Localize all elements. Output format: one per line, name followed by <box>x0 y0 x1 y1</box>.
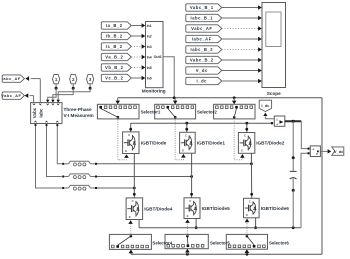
label IGBT/Diode4 <box>144 207 173 212</box>
wire DC- rail <box>139 226 301 229</box>
wire Selector2 out to Q2 gate <box>175 117 185 160</box>
label Selector4 <box>152 240 172 245</box>
svg-text:Va_B_2: Va_B_2 <box>105 55 123 60</box>
label Selector2 <box>197 109 217 114</box>
wire capacitor C1 to DC- rail <box>292 190 294 227</box>
svg-text:Vabc_AF: Vabc_AF <box>191 26 212 31</box>
wire port 1 to V-I block A <box>46 88 56 102</box>
selector block Selector4 <box>109 234 151 249</box>
wire bus drop to Selector3 <box>232 98 237 105</box>
wire Ib_B_2 to Monitoring In2 <box>131 34 145 39</box>
svg-text:Selector5: Selector5 <box>210 240 230 245</box>
wire Selector1 out to Q1 gate <box>118 117 129 160</box>
svg-text:Iabc_B_1: Iabc_B_1 <box>191 16 214 21</box>
label Selector1 <box>141 109 161 114</box>
goto tag Vabc_AF <box>1 92 24 99</box>
svg-text:Selector1: Selector1 <box>141 109 161 114</box>
selector block Selector6 <box>226 234 267 249</box>
transistor Q6 (IGBT/Diode6) <box>244 198 260 218</box>
wire leg3 C stub <box>245 123 248 132</box>
selector block Selector1 <box>97 104 139 119</box>
from tag Ib_B_2 <box>101 32 131 39</box>
wire Ic_B_2 to Monitoring In3 <box>131 44 145 49</box>
transistor Q4 (IGBT/Diode4) <box>126 198 143 220</box>
from tag V_dc <box>186 67 222 74</box>
svg-text:C: C <box>132 199 134 203</box>
svg-text:Vb_B_2: Vb_B_2 <box>105 65 124 70</box>
wire phase line 3 to leg 1 <box>97 187 136 190</box>
from tag Iabc_AF <box>186 35 222 42</box>
wire Va_B_2 to Monitoring In4 <box>131 55 145 60</box>
wire thick DC link <box>285 120 302 123</box>
wire DC+ to capacitor C1 <box>292 121 295 159</box>
svg-text:C: C <box>185 134 187 138</box>
wire port 3 to V-I block C <box>56 88 90 102</box>
svg-text:IGBT/Diode: IGBT/Diode <box>141 141 167 146</box>
port 1 <box>53 74 60 89</box>
label IGBT/Diode6 <box>261 206 290 211</box>
wire Ia_B_2 to Monitoring In1 <box>131 23 145 28</box>
svg-text:Ic_B_2: Ic_B_2 <box>106 44 123 49</box>
wire leg1 C stub <box>129 123 132 132</box>
wire current measurement to I_dc tag <box>263 113 274 119</box>
from tag Vabc_B_2 <box>186 56 222 63</box>
wire to Iabc_AF tag <box>25 76 40 102</box>
svg-text:E: E <box>187 214 189 218</box>
label IGBT/Diode1 <box>197 141 226 146</box>
wire leg2 midpoint <box>190 153 193 198</box>
inductor L3 <box>62 185 97 190</box>
svg-text:Vc_B_2: Vc_B_2 <box>105 76 123 81</box>
svg-text:+: + <box>276 123 278 127</box>
from tag Iabc_B_1 <box>186 14 222 21</box>
inductor L2 <box>62 174 97 179</box>
capacitor C1 <box>290 159 297 192</box>
svg-text:Vabc_AF: Vabc_AF <box>1 93 21 98</box>
svg-text:Iabc_B_2: Iabc_B_2 <box>191 47 214 52</box>
wire bus drop to Selector2 <box>173 98 178 105</box>
svg-text:C: C <box>244 134 246 138</box>
wire Vabc_AF to Scope <box>222 26 262 31</box>
svg-text:E: E <box>129 215 131 219</box>
transistor Q3 (IGBT/Diode2) <box>238 133 254 154</box>
port 2 <box>70 74 77 89</box>
wire Q6 emitter to DC- rail <box>254 218 257 229</box>
wire V_dc to Scope <box>222 68 262 73</box>
wire voltage measurement - to DC- rail <box>301 152 310 227</box>
wire Iabc_AF to Scope <box>222 37 262 42</box>
block Monitoring U-mon <box>146 22 164 88</box>
svg-text:Selector4: Selector4 <box>152 240 172 245</box>
from tag Va_B_2 <box>101 53 131 60</box>
svg-text:E: E <box>246 213 248 217</box>
wire Q5 emitter to DC- rail <box>195 219 198 230</box>
svg-text:IGBT/Diode1: IGBT/Diode1 <box>197 141 226 146</box>
from tag Ia_B_2 <box>101 22 131 29</box>
svg-text:v: v <box>316 152 318 156</box>
from tag Ic_B_2 <box>101 43 131 50</box>
wire phase line 1 to leg 3 <box>97 162 253 165</box>
svg-text:V-I Measurem: V-I Measurem <box>64 113 94 118</box>
svg-text:Scope: Scope <box>267 91 281 96</box>
wire Selector5 out to Q5 gate <box>185 219 190 236</box>
block Scope <box>262 3 286 88</box>
label IGBT/Diode2 <box>256 141 285 146</box>
wire DC+ rail <box>131 122 272 125</box>
wire DC+ to voltage measurement + <box>301 121 309 149</box>
wire port 2 to V-I block B <box>51 88 73 102</box>
svg-text:i: i <box>277 118 278 122</box>
label IGBT/Diode5 <box>202 206 231 211</box>
wire bus rise to Selector4 <box>129 250 134 255</box>
wire Selector4 out to Q4 gate <box>128 220 133 236</box>
svg-text:IGBT/Diode4: IGBT/Diode4 <box>144 207 173 212</box>
goto tag V_dc <box>332 147 344 155</box>
wire leg2 C stub <box>185 123 188 132</box>
svg-text:In1: In1 <box>147 24 152 28</box>
svg-text:Iabc_AF: Iabc_AF <box>2 76 21 81</box>
goto tag Iabc_AF <box>2 75 25 82</box>
block Three-Phase V-I Measurement <box>31 103 62 124</box>
wire bus rise to Selector5 <box>185 249 190 254</box>
wire Iabc_B_1 to Scope <box>222 16 262 21</box>
label Monitoring <box>142 88 166 93</box>
label Three-Phase V-I Measurement <box>64 107 94 118</box>
label Scope <box>267 91 281 96</box>
svg-text:V_dc: V_dc <box>334 149 344 154</box>
wire leg3 midpoint <box>250 153 253 198</box>
from tag I_dc <box>186 77 222 84</box>
wire Vb_B_2 to Monitoring In5 <box>131 65 145 70</box>
wire pulse bus top <box>118 96 322 99</box>
svg-text:Iabc_AF: Iabc_AF <box>192 37 212 42</box>
from tag Vb_B_2 <box>101 64 131 71</box>
svg-text:In4: In4 <box>147 56 152 60</box>
svg-text:IGBT/Diode2: IGBT/Diode2 <box>256 141 285 146</box>
wire phase line 2 to leg 2 <box>97 175 193 178</box>
wire Vc_B_2 to Monitoring In6 <box>131 76 145 81</box>
svg-text:E: E <box>125 149 127 153</box>
label IGBT/Diode <box>141 141 167 146</box>
svg-text:Ia_B_2: Ia_B_2 <box>106 23 123 28</box>
svg-text:Selector6: Selector6 <box>269 240 289 245</box>
port 3 <box>87 74 94 89</box>
transistor Q5 (IGBT/Diode5) <box>184 198 200 219</box>
svg-text:Vabc: Vabc <box>32 107 37 118</box>
svg-text:E: E <box>241 149 243 153</box>
from tag Vabc_B_1 <box>186 4 222 11</box>
svg-text:C: C <box>128 133 130 137</box>
wire leg1 midpoint <box>133 154 136 198</box>
from tag Vc_B_2 <box>101 74 131 81</box>
wire pulse bus right vertical <box>321 98 323 254</box>
selector block Selector2 <box>155 104 196 119</box>
wire Vabc_B_2 to Scope <box>222 58 262 63</box>
wire Monitoring Out1 to pulse bus <box>163 57 174 98</box>
wire Vabc_B_1 to Scope <box>222 5 262 10</box>
svg-text:Monitoring: Monitoring <box>142 88 166 93</box>
wire V1 out to V_dc tag <box>320 149 331 153</box>
wire Iabc_B_2 to Scope <box>222 47 262 52</box>
svg-text:In5: In5 <box>147 66 152 70</box>
wire Selector3 out to Q3 gate <box>234 116 244 160</box>
wire Q4 emitter to DC- rail <box>138 220 140 228</box>
wire bus drop to Selector1 <box>115 98 120 105</box>
svg-text:Ib_B_2: Ib_B_2 <box>106 34 123 39</box>
from tag Vabc_AF <box>186 25 222 32</box>
voltage measurement block V1 <box>310 146 320 157</box>
svg-text:E: E <box>182 149 184 153</box>
wire I_dc to Scope <box>222 79 262 84</box>
svg-text:I_dc: I_dc <box>197 79 208 84</box>
svg-text:Selector2: Selector2 <box>197 109 217 114</box>
label Selector6 <box>269 240 289 245</box>
svg-text:Out1: Out1 <box>154 55 162 59</box>
svg-text:V_dc: V_dc <box>196 68 208 73</box>
inductor L1 <box>62 161 97 166</box>
wire to Vabc_AF tag <box>25 93 34 102</box>
svg-text:IGBT/Diode5: IGBT/Diode5 <box>202 206 231 211</box>
transistor Q1 (IGBT/Diode) <box>123 132 139 154</box>
svg-text:In2: In2 <box>147 35 152 39</box>
svg-text:Iabc: Iabc <box>39 108 44 118</box>
wire pulse bus bottom <box>131 253 322 256</box>
svg-text:In3: In3 <box>147 45 152 49</box>
wire V-I C to inductor L1 row <box>56 124 62 164</box>
svg-text:Vabc_B_2: Vabc_B_2 <box>190 58 214 63</box>
wire V-I B to inductor L2 row <box>46 124 62 177</box>
wire Selector6 out to Q6 gate <box>245 219 250 236</box>
transistor Q2 (IGBT/Diode1) <box>180 132 196 153</box>
svg-text:In6: In6 <box>147 77 152 81</box>
svg-text:I_dc: I_dc <box>261 103 270 108</box>
selector block Selector5 <box>165 234 208 248</box>
svg-text:C: C <box>249 200 251 204</box>
label Selector5 <box>210 240 230 245</box>
svg-text:Vabc_B_1: Vabc_B_1 <box>190 5 214 10</box>
selector block Selector3 <box>214 104 255 119</box>
goto tag I_dc <box>259 100 271 111</box>
svg-text:C: C <box>189 199 191 203</box>
wire bus rise to Selector6 <box>245 249 250 254</box>
svg-text:Three-Phase: Three-Phase <box>64 107 93 112</box>
from tag Iabc_B_2 <box>186 46 222 53</box>
wire V-I A to inductor L3 row <box>35 124 62 189</box>
current measurement block I1 <box>271 116 285 127</box>
svg-text:IGBT/Diode6: IGBT/Diode6 <box>261 206 290 211</box>
